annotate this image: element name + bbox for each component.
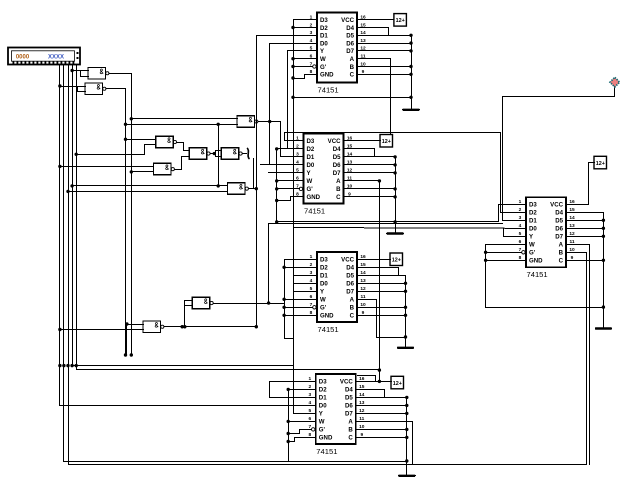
svg-text:9: 9 — [362, 310, 365, 316]
svg-text:D2: D2 — [529, 210, 537, 217]
svg-text:14: 14 — [360, 270, 366, 276]
svg-text:Y: Y — [529, 234, 533, 241]
svg-text:15: 15 — [360, 22, 366, 28]
svg-text:2: 2 — [296, 144, 299, 150]
svg-text:D5: D5 — [346, 273, 354, 280]
svg-text:GND: GND — [319, 435, 333, 442]
svg-text:12: 12 — [347, 168, 353, 174]
svg-text:13: 13 — [360, 38, 366, 44]
svg-text:8: 8 — [310, 69, 313, 75]
svg-text:11: 11 — [359, 416, 364, 422]
svg-text:14: 14 — [360, 30, 366, 36]
svg-text:D6: D6 — [345, 403, 353, 410]
svg-text:9: 9 — [362, 69, 365, 75]
svg-text:8: 8 — [519, 255, 522, 261]
svg-text:C: C — [350, 313, 355, 320]
svg-text:13: 13 — [360, 278, 366, 284]
svg-text:15: 15 — [569, 207, 575, 213]
svg-text:16: 16 — [569, 199, 575, 205]
svg-text:VCC: VCC — [340, 379, 353, 386]
svg-text:1: 1 — [310, 15, 313, 21]
svg-text:Y: Y — [319, 411, 323, 418]
svg-text:10: 10 — [569, 247, 575, 253]
svg-text:D0: D0 — [319, 403, 327, 410]
svg-text:D3: D3 — [320, 17, 328, 24]
svg-text:2: 2 — [310, 22, 313, 28]
svg-text:G': G' — [320, 305, 327, 312]
svg-text:10: 10 — [347, 184, 353, 190]
svg-text:GND: GND — [320, 72, 334, 79]
svg-text:15: 15 — [359, 384, 365, 390]
svg-text:5: 5 — [310, 46, 313, 52]
svg-text:B: B — [350, 64, 355, 71]
svg-text:7: 7 — [296, 184, 299, 190]
svg-text:12: 12 — [569, 231, 575, 237]
svg-text:13: 13 — [569, 223, 575, 229]
svg-text:16: 16 — [360, 254, 366, 260]
svg-text:4: 4 — [310, 38, 313, 44]
svg-text:7: 7 — [310, 302, 313, 308]
svg-text:G': G' — [319, 427, 326, 434]
svg-text:D4: D4 — [346, 25, 354, 32]
svg-text:3: 3 — [296, 152, 299, 158]
svg-text:D2: D2 — [307, 146, 315, 153]
svg-text:A: A — [350, 297, 355, 304]
svg-text:D7: D7 — [333, 170, 341, 177]
svg-text:16: 16 — [360, 15, 366, 21]
svg-text:74151: 74151 — [318, 325, 339, 334]
svg-text:B: B — [350, 305, 355, 312]
svg-text:5: 5 — [296, 168, 299, 174]
svg-text:74151: 74151 — [316, 447, 337, 456]
svg-text:G': G' — [307, 186, 314, 193]
svg-text:D1: D1 — [529, 218, 537, 225]
svg-text:D4: D4 — [345, 387, 353, 394]
svg-text:A: A — [350, 56, 355, 63]
svg-text:GND: GND — [307, 194, 321, 201]
svg-text:G': G' — [320, 64, 327, 71]
svg-text:D6: D6 — [555, 226, 563, 233]
svg-text:D7: D7 — [555, 234, 563, 241]
svg-text:W: W — [319, 419, 325, 426]
svg-text:6: 6 — [308, 416, 311, 422]
svg-text:1: 1 — [519, 199, 522, 205]
svg-text:W: W — [307, 178, 313, 185]
svg-text:74151: 74151 — [318, 85, 339, 94]
svg-text:VCC: VCC — [341, 257, 354, 264]
svg-text:D5: D5 — [555, 218, 563, 225]
svg-text:VCC: VCC — [341, 17, 354, 24]
svg-text:D6: D6 — [346, 40, 354, 47]
svg-text:11: 11 — [347, 176, 352, 182]
svg-text:B: B — [559, 250, 564, 257]
svg-text:4: 4 — [296, 160, 299, 166]
svg-text:12: 12 — [359, 408, 365, 414]
svg-text:11: 11 — [360, 294, 365, 300]
svg-text:14: 14 — [569, 215, 575, 221]
svg-text:9: 9 — [348, 192, 351, 198]
svg-text:12: 12 — [360, 46, 366, 52]
svg-text:12+: 12+ — [392, 258, 401, 264]
svg-text:16: 16 — [359, 376, 365, 382]
svg-text:3: 3 — [310, 30, 313, 36]
svg-text:Y: Y — [307, 170, 311, 177]
svg-text:5: 5 — [310, 286, 313, 292]
svg-text:6: 6 — [310, 54, 313, 60]
svg-text:D5: D5 — [346, 33, 354, 40]
svg-text:D0: D0 — [320, 281, 328, 288]
svg-text:6: 6 — [310, 294, 313, 300]
svg-text:2: 2 — [308, 384, 311, 390]
svg-text:4: 4 — [310, 278, 313, 284]
svg-text:G': G' — [529, 250, 536, 257]
svg-text:15: 15 — [360, 262, 366, 268]
svg-text:13: 13 — [347, 160, 353, 166]
svg-text:W: W — [320, 56, 326, 63]
svg-text:D6: D6 — [346, 281, 354, 288]
svg-text:D7: D7 — [346, 48, 354, 55]
svg-text:D0: D0 — [307, 162, 315, 169]
svg-text:W: W — [320, 297, 326, 304]
svg-text:D4: D4 — [333, 146, 341, 153]
svg-text:GND: GND — [320, 313, 334, 320]
svg-text:D0: D0 — [529, 226, 537, 233]
svg-text:0000: 0000 — [16, 55, 30, 61]
svg-text:74151: 74151 — [304, 206, 325, 215]
svg-text:6: 6 — [296, 176, 299, 182]
svg-text:GND: GND — [529, 258, 543, 265]
svg-text:XXXX: XXXX — [48, 55, 64, 61]
svg-text:5: 5 — [308, 408, 311, 414]
svg-text:D2: D2 — [319, 387, 327, 394]
svg-text:A: A — [348, 419, 353, 426]
svg-text:5: 5 — [519, 231, 522, 237]
svg-text:1: 1 — [296, 136, 299, 142]
svg-text:11: 11 — [360, 54, 365, 60]
svg-text:12+: 12+ — [393, 381, 402, 387]
svg-text:D7: D7 — [345, 411, 353, 418]
svg-text:D6: D6 — [333, 162, 341, 169]
svg-text:A: A — [559, 242, 564, 249]
svg-text:D2: D2 — [320, 265, 328, 272]
svg-text:D4: D4 — [346, 265, 354, 272]
svg-text:74151: 74151 — [527, 270, 548, 279]
svg-text:D1: D1 — [319, 395, 327, 402]
svg-text:7: 7 — [308, 424, 311, 430]
svg-text:3: 3 — [308, 392, 311, 398]
svg-text:D3: D3 — [529, 202, 537, 209]
svg-text:3: 3 — [310, 270, 313, 276]
svg-text:Y: Y — [320, 289, 324, 296]
svg-text:D4: D4 — [555, 210, 563, 217]
svg-text:C: C — [348, 435, 353, 442]
svg-text:8: 8 — [296, 192, 299, 198]
svg-text:14: 14 — [359, 392, 365, 398]
svg-text:D1: D1 — [320, 33, 328, 40]
svg-text:C: C — [336, 194, 341, 201]
svg-text:D5: D5 — [345, 395, 353, 402]
svg-text:D1: D1 — [307, 154, 315, 161]
svg-text:11: 11 — [569, 239, 574, 245]
svg-text:3: 3 — [519, 215, 522, 221]
svg-text:D3: D3 — [319, 379, 327, 386]
svg-text:C: C — [350, 72, 355, 79]
svg-text:VCC: VCC — [550, 202, 563, 209]
svg-text:10: 10 — [359, 424, 365, 430]
svg-text:7: 7 — [519, 247, 522, 253]
svg-text:D7: D7 — [346, 289, 354, 296]
svg-text:D2: D2 — [320, 25, 328, 32]
svg-text:16: 16 — [347, 136, 353, 142]
svg-text:Y: Y — [320, 48, 324, 55]
svg-text:12: 12 — [360, 286, 366, 292]
svg-text:C: C — [559, 258, 564, 265]
svg-text:2: 2 — [310, 262, 313, 268]
svg-text:VCC: VCC — [328, 138, 341, 145]
svg-text:14: 14 — [347, 152, 353, 158]
svg-text:1: 1 — [308, 376, 311, 382]
svg-text:12+: 12+ — [596, 161, 605, 167]
svg-text:10: 10 — [360, 302, 366, 308]
svg-text:A: A — [336, 178, 341, 185]
svg-text:2: 2 — [519, 207, 522, 213]
svg-text:B: B — [348, 427, 353, 434]
svg-text:8: 8 — [310, 310, 313, 316]
svg-text:12+: 12+ — [396, 18, 405, 24]
svg-text:W: W — [529, 242, 535, 249]
svg-text:6: 6 — [519, 239, 522, 245]
svg-text:13: 13 — [359, 400, 365, 406]
svg-text:4: 4 — [519, 223, 522, 229]
svg-text:7: 7 — [310, 61, 313, 67]
svg-text:B: B — [336, 186, 341, 193]
svg-text:D1: D1 — [320, 273, 328, 280]
svg-text:10: 10 — [360, 61, 366, 67]
svg-text:8: 8 — [308, 432, 311, 438]
svg-text:D3: D3 — [320, 257, 328, 264]
svg-text:9: 9 — [571, 255, 574, 261]
svg-text:15: 15 — [347, 144, 353, 150]
svg-text:D5: D5 — [333, 154, 341, 161]
svg-text:D3: D3 — [307, 138, 315, 145]
svg-text:12+: 12+ — [382, 139, 391, 145]
svg-text:D0: D0 — [320, 40, 328, 47]
svg-text:9: 9 — [360, 432, 363, 438]
svg-text:4: 4 — [308, 400, 311, 406]
svg-text:1: 1 — [310, 254, 313, 260]
